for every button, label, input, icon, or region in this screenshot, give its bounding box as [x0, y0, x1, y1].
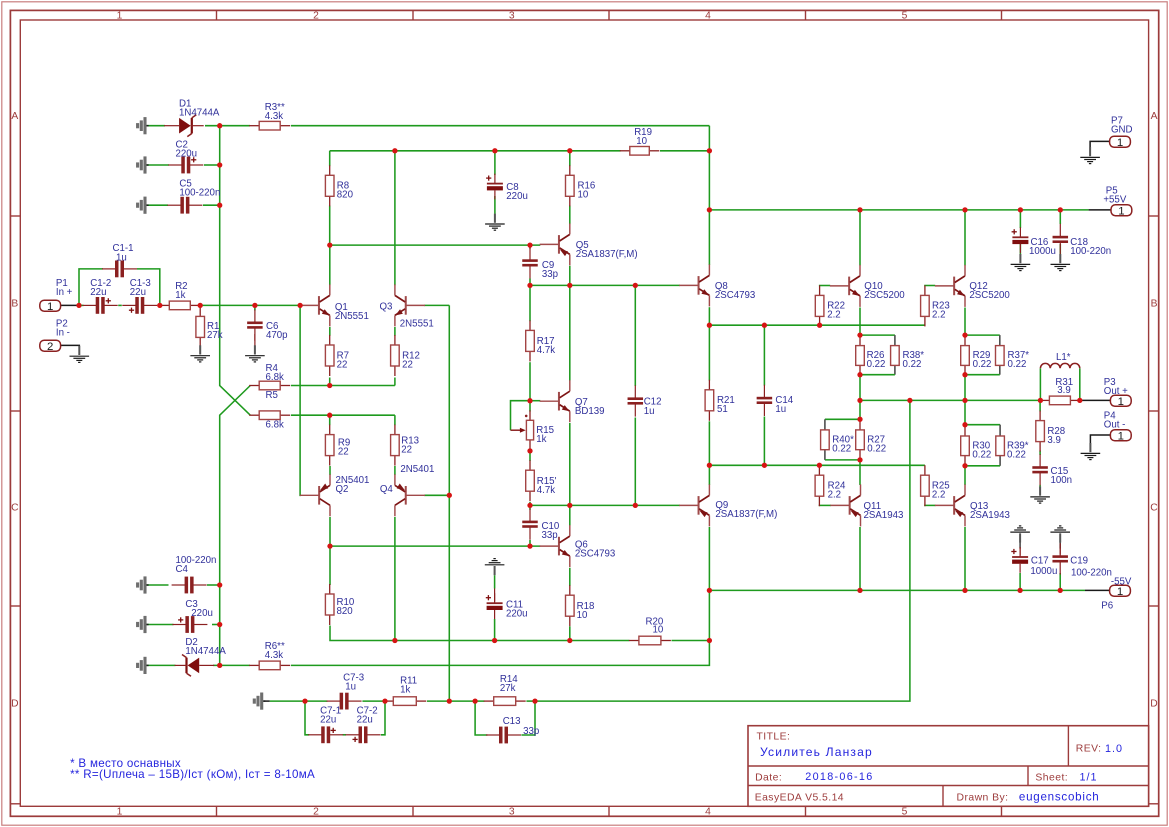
svg-text:-55V: -55V	[1111, 576, 1132, 587]
svg-text:6.8k: 6.8k	[266, 420, 284, 431]
svg-text:Sheet:: Sheet:	[1035, 773, 1068, 784]
svg-text:1: 1	[117, 807, 123, 818]
svg-text:Out -: Out -	[1104, 420, 1126, 431]
svg-text:1.0: 1.0	[1105, 743, 1123, 755]
svg-text:Q4: Q4	[380, 484, 394, 495]
svg-text:33p: 33p	[542, 269, 558, 280]
svg-text:100-220n: 100-220n	[1071, 568, 1112, 579]
svg-text:3.9: 3.9	[1047, 435, 1060, 446]
svg-text:1u: 1u	[116, 252, 127, 263]
svg-text:1N4744A: 1N4744A	[185, 646, 226, 657]
svg-text:2: 2	[313, 807, 319, 818]
svg-text:B: B	[1151, 298, 1158, 309]
svg-text:220u: 220u	[506, 609, 528, 620]
svg-text:1: 1	[47, 301, 53, 313]
svg-text:2SC4793: 2SC4793	[575, 549, 615, 560]
svg-text:2N5551: 2N5551	[400, 318, 434, 329]
svg-text:Q2: Q2	[336, 484, 349, 495]
svg-text:4.3k: 4.3k	[265, 650, 283, 661]
svg-text:51: 51	[717, 404, 728, 415]
svg-text:C: C	[11, 502, 19, 513]
svg-text:1: 1	[1118, 431, 1124, 443]
svg-text:GND: GND	[1111, 125, 1133, 136]
svg-text:2SC4793: 2SC4793	[715, 290, 755, 301]
svg-text:33p: 33p	[523, 726, 539, 737]
svg-text:0.22: 0.22	[972, 449, 991, 460]
svg-text:22: 22	[402, 360, 413, 371]
svg-text:220u: 220u	[191, 608, 213, 619]
svg-text:B: B	[11, 298, 18, 309]
svg-text:In +: In +	[56, 287, 73, 298]
svg-text:2SA1837(F,M): 2SA1837(F,M)	[715, 509, 777, 520]
svg-text:In -: In -	[56, 327, 70, 338]
svg-text:0.22: 0.22	[903, 359, 922, 370]
svg-text:D: D	[1150, 698, 1157, 709]
svg-text:1u: 1u	[345, 682, 356, 693]
svg-text:1000u: 1000u	[1029, 246, 1056, 257]
svg-text:TITLE:: TITLE:	[757, 732, 791, 743]
svg-text:2N5401: 2N5401	[400, 464, 434, 475]
svg-text:100-220n: 100-220n	[1070, 246, 1111, 257]
svg-text:5: 5	[902, 11, 908, 22]
svg-text:100-220n: 100-220n	[179, 187, 220, 198]
svg-text:1/1: 1/1	[1080, 771, 1098, 783]
svg-text:22: 22	[401, 444, 412, 455]
svg-text:100n: 100n	[1051, 475, 1073, 486]
svg-text:1: 1	[1118, 396, 1124, 408]
svg-text:1: 1	[1117, 137, 1123, 149]
svg-text:22: 22	[338, 447, 349, 458]
svg-text:2.2: 2.2	[827, 310, 840, 321]
svg-text:2N5551: 2N5551	[335, 311, 369, 322]
svg-text:C19: C19	[1070, 556, 1088, 567]
svg-text:1: 1	[1117, 586, 1123, 598]
svg-text:220u: 220u	[506, 191, 528, 202]
svg-text:22u: 22u	[130, 287, 146, 298]
svg-text:4.7k: 4.7k	[537, 485, 555, 496]
svg-text:2.2: 2.2	[932, 310, 945, 321]
svg-text:10: 10	[653, 625, 664, 636]
svg-text:2: 2	[313, 11, 319, 22]
svg-text:1k: 1k	[175, 290, 185, 301]
svg-text:1: 1	[117, 11, 123, 22]
svg-text:C: C	[1150, 502, 1158, 513]
svg-text:** R=(Uплеча – 15В)/Iст (кОм),: ** R=(Uплеча – 15В)/Iст (кОм), Iст = 8-1…	[70, 768, 315, 781]
svg-text:C13: C13	[503, 716, 521, 727]
svg-text:Out +: Out +	[1104, 386, 1128, 397]
svg-text:4: 4	[705, 11, 711, 22]
svg-text:2SC5200: 2SC5200	[969, 290, 1010, 301]
svg-text:10: 10	[578, 190, 589, 201]
svg-text:BD139: BD139	[575, 406, 605, 417]
svg-text:3: 3	[509, 11, 515, 22]
svg-text:P6: P6	[1101, 600, 1113, 611]
svg-text:1u: 1u	[644, 406, 655, 417]
svg-text:6.8k: 6.8k	[266, 372, 284, 383]
svg-text:220u: 220u	[176, 149, 198, 160]
svg-text:27k: 27k	[207, 330, 223, 341]
svg-text:1k: 1k	[400, 685, 410, 696]
svg-text:2SA1943: 2SA1943	[970, 510, 1010, 521]
svg-text:22u: 22u	[320, 715, 336, 726]
svg-text:C4: C4	[176, 564, 189, 575]
svg-text:2SC5200: 2SC5200	[864, 290, 905, 301]
svg-text:R5: R5	[266, 390, 278, 401]
svg-text:2018-06-16: 2018-06-16	[805, 771, 873, 783]
svg-text:1: 1	[1118, 205, 1124, 217]
svg-text:2SA1837(F,M): 2SA1837(F,M)	[576, 249, 638, 260]
svg-text:0.22: 0.22	[973, 359, 992, 370]
svg-text:0.22: 0.22	[832, 444, 851, 455]
svg-text:2SA1943: 2SA1943	[864, 510, 904, 521]
svg-text:22u: 22u	[90, 287, 106, 298]
svg-text:1k: 1k	[536, 434, 546, 445]
svg-text:+55V: +55V	[1103, 195, 1126, 206]
svg-text:Q3: Q3	[380, 301, 393, 312]
svg-text:470p: 470p	[266, 330, 288, 341]
svg-text:0.22: 0.22	[867, 359, 886, 370]
svg-text:eugenscobich: eugenscobich	[1019, 790, 1100, 803]
svg-text:820: 820	[337, 606, 354, 617]
svg-text:0.22: 0.22	[1008, 359, 1027, 370]
svg-text:REV:: REV:	[1076, 744, 1102, 755]
svg-text:4.7k: 4.7k	[537, 345, 555, 356]
svg-text:33p: 33p	[542, 530, 558, 541]
svg-text:27k: 27k	[500, 683, 516, 694]
svg-text:2: 2	[47, 341, 53, 353]
svg-text:3: 3	[509, 807, 515, 818]
svg-text:5: 5	[902, 807, 908, 818]
svg-text:D: D	[11, 698, 18, 709]
svg-text:1u: 1u	[775, 404, 786, 415]
svg-text:10: 10	[636, 136, 647, 147]
svg-text:0.22: 0.22	[867, 444, 886, 455]
svg-text:4: 4	[705, 807, 711, 818]
svg-text:4.3k: 4.3k	[265, 111, 283, 122]
svg-text:Drawn By:: Drawn By:	[957, 793, 1009, 804]
svg-text:820: 820	[337, 190, 354, 201]
svg-text:Усилитеь Ланзар: Усилитеь Ланзар	[760, 745, 873, 759]
svg-text:2.2: 2.2	[828, 489, 841, 500]
svg-text:1N4744A: 1N4744A	[179, 107, 220, 118]
svg-text:22u: 22u	[357, 715, 373, 726]
svg-text:1000u: 1000u	[1030, 566, 1057, 577]
svg-text:EasyEDA V5.5.14: EasyEDA V5.5.14	[755, 793, 844, 804]
svg-text:Date:: Date:	[755, 772, 782, 783]
svg-text:3.9: 3.9	[1057, 385, 1070, 396]
svg-text:2.2: 2.2	[932, 489, 945, 500]
svg-text:22: 22	[337, 360, 348, 371]
svg-text:10: 10	[577, 610, 588, 621]
svg-text:L1*: L1*	[1056, 352, 1071, 363]
svg-text:0.22: 0.22	[1007, 449, 1026, 460]
svg-text:A: A	[11, 111, 18, 122]
svg-text:A: A	[1151, 111, 1158, 122]
